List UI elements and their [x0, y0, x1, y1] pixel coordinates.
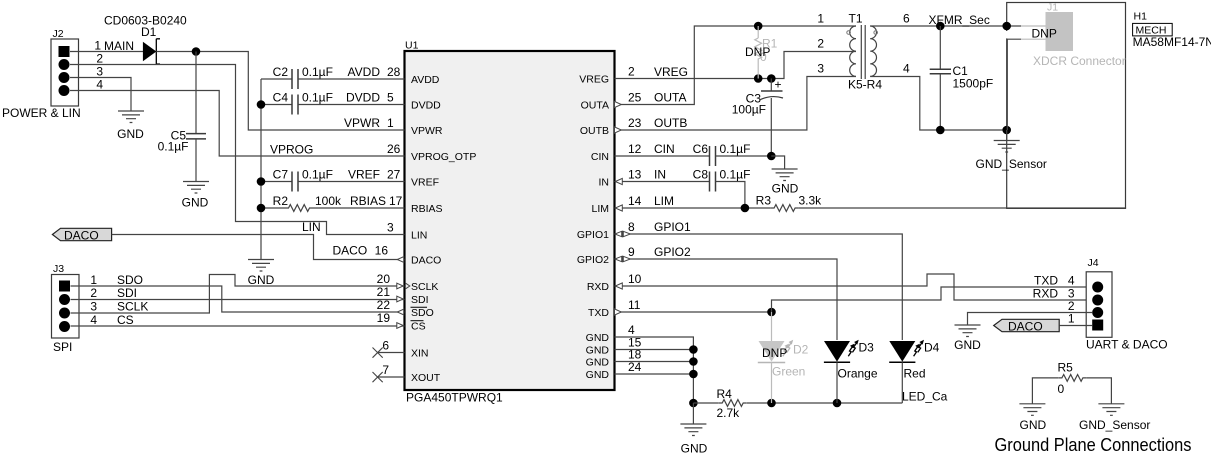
transducer H1 outline box — [1007, 3, 1126, 209]
svg-text:27: 27 — [387, 168, 401, 182]
svg-text:5: 5 — [387, 91, 394, 105]
pin arrow DACO — [397, 257, 403, 263]
svg-text:U1: U1 — [405, 40, 419, 52]
wire IN pin 13 to C8 — [615, 181, 710, 183]
IC U1 body PGA450TPWRQ1 — [405, 40, 615, 405]
svg-text:CIN: CIN — [591, 151, 609, 163]
svg-text:AVDD: AVDD — [411, 74, 440, 86]
junction TXD/D2 — [767, 308, 776, 317]
transformer T1 K5-R4 — [817, 12, 910, 92]
svg-text:28: 28 — [387, 65, 401, 79]
svg-text:RXD: RXD — [1033, 287, 1059, 301]
svg-text:VREG: VREG — [579, 74, 609, 86]
svg-text:2: 2 — [628, 65, 635, 79]
svg-text:VREF: VREF — [348, 168, 380, 182]
transducer H1 labels MECH MA58MF14-7N — [1133, 11, 1211, 50]
pin arrows GPIO2 — [615, 256, 622, 261]
wire T1 pin 4 to sensor ground row — [870, 77, 1007, 131]
svg-text:C4: C4 — [273, 91, 289, 105]
svg-text:SDI: SDI — [117, 286, 137, 300]
svg-text:RBIAS: RBIAS — [350, 194, 386, 208]
svg-text:GPIO1: GPIO1 — [654, 220, 691, 234]
wire T1 pin 6 to XFMR_Sec / J1.1 — [870, 25, 1021, 27]
junction rail/D3 — [833, 399, 842, 408]
svg-text:C6: C6 — [693, 142, 709, 156]
svg-text:12: 12 — [628, 142, 642, 156]
svg-text:J4: J4 — [1088, 257, 1099, 269]
svg-text:DVDD: DVDD — [346, 91, 380, 105]
junction rail/R2 — [257, 204, 266, 213]
wire D1 cathode to VPWR corner — [156, 52, 404, 131]
svg-text:RBIAS: RBIAS — [411, 203, 443, 215]
svg-text:10: 10 — [628, 272, 642, 286]
svg-text:UART & DACO: UART & DACO — [1086, 338, 1168, 352]
primary winding — [850, 26, 856, 76]
wire CIN pin 12 to C6 — [615, 155, 710, 157]
ground rail for C2/C4/C7/R2 — [260, 79, 262, 260]
U1 left pin numbers — [375, 65, 403, 377]
junction rail/C7 — [257, 177, 266, 186]
wire GPIO1 pin 8 to D4 — [615, 234, 903, 340]
svg-text:DNP: DNP — [1032, 27, 1057, 41]
svg-text:D4: D4 — [924, 341, 940, 355]
wire J3.4 CS to U1 CS pin 19 — [71, 325, 405, 327]
pin arrow OUTA — [615, 101, 622, 107]
svg-text:VPROG_OTP: VPROG_OTP — [411, 151, 476, 163]
svg-text:3: 3 — [96, 65, 103, 79]
resistor R2 100k — [261, 194, 405, 211]
svg-text:SDO: SDO — [411, 307, 434, 319]
svg-text:0.1µF: 0.1µF — [720, 142, 751, 156]
svg-text:1: 1 — [94, 39, 101, 53]
svg-text:0.1µF: 0.1µF — [158, 140, 189, 154]
svg-text:8: 8 — [628, 220, 635, 234]
svg-text:25: 25 — [628, 91, 642, 105]
capacitor C4 0.1uF — [261, 91, 405, 115]
junction GND rail / R4 — [689, 399, 698, 408]
pin arrow CS — [397, 323, 403, 329]
wire RXD pin 10 to J4.3 with hop — [615, 274, 1093, 300]
svg-text:4: 4 — [96, 78, 103, 92]
svg-text:TXD: TXD — [588, 307, 609, 319]
svg-text:GND: GND — [117, 127, 144, 141]
svg-text:CIN: CIN — [654, 142, 675, 156]
svg-text:GPIO2: GPIO2 — [577, 254, 609, 266]
ground under J4 pin 2 — [954, 325, 981, 352]
svg-text:GND: GND — [586, 369, 610, 381]
wire J2.1 to D1 anode — [70, 51, 143, 53]
resistor R1 DNP 0 (vertical, not populated) — [745, 26, 778, 79]
capacitor C2 0.1uF — [273, 65, 405, 89]
junction rail/C4 — [257, 100, 266, 109]
pin arrows GPIO1 — [615, 231, 622, 236]
svg-text:SCLK: SCLK — [411, 281, 438, 293]
svg-text:H1: H1 — [1134, 11, 1148, 23]
svg-text:DNP: DNP — [762, 346, 787, 360]
XIN no-connect stub pin 6 — [378, 352, 405, 354]
svg-text:19: 19 — [377, 311, 391, 325]
svg-text:LIN: LIN — [411, 230, 427, 242]
svg-text:1: 1 — [387, 116, 394, 130]
svg-text:VPWR: VPWR — [411, 125, 443, 137]
svg-text:GPIO1: GPIO1 — [577, 229, 609, 241]
pin arrow LIM — [615, 205, 622, 211]
svg-text:11: 11 — [628, 298, 641, 312]
svg-text:GND: GND — [1020, 418, 1047, 432]
svg-text:0.1µF: 0.1µF — [720, 168, 751, 182]
svg-text:GND: GND — [182, 196, 209, 210]
svg-text:1: 1 — [817, 12, 824, 26]
svg-text:GND: GND — [586, 332, 610, 344]
svg-text:13: 13 — [628, 168, 642, 182]
svg-text:VREG: VREG — [654, 65, 688, 79]
svg-text:C8: C8 — [693, 168, 709, 182]
svg-text:GPIO2: GPIO2 — [654, 245, 691, 259]
junction C1 top — [936, 22, 945, 31]
LED D4 Red — [889, 340, 939, 403]
resistor R3 3.3k — [756, 194, 1126, 212]
svg-text:DVDD: DVDD — [411, 100, 441, 112]
svg-text:3: 3 — [387, 221, 394, 235]
pin arrow OUTB — [615, 127, 622, 133]
svg-text:AVDD: AVDD — [348, 65, 381, 79]
svg-text:CS: CS — [117, 313, 134, 327]
capacitor C8 0.1uF — [693, 168, 751, 209]
svg-text:RXD: RXD — [587, 281, 610, 293]
resistor R5 0 ground tie — [1032, 361, 1111, 404]
svg-text:T1: T1 — [849, 12, 863, 26]
svg-text:20: 20 — [377, 272, 391, 286]
phase dots — [847, 31, 851, 35]
svg-text:SDO: SDO — [117, 273, 143, 287]
ground GND (plane tie left) — [1019, 404, 1046, 432]
svg-text:23: 23 — [628, 116, 642, 130]
net flag DACO (left) — [52, 228, 111, 242]
capacitor C7 0.1uF — [261, 168, 405, 192]
XOUT no-connect stub pin 7 — [378, 376, 405, 378]
svg-text:14: 14 — [628, 194, 642, 208]
wire OUTB pin 23 to T1 pin 3 — [615, 77, 857, 131]
core — [861, 25, 865, 79]
svg-text:GND: GND — [954, 338, 981, 352]
junction C8/LIM — [741, 204, 750, 213]
U1 left pin names — [411, 74, 477, 384]
junction XFMR_Sec / H1 top terminal — [1002, 22, 1011, 31]
pin arrow IN — [615, 178, 622, 184]
svg-text:DNP: DNP — [745, 45, 770, 59]
svg-text:4: 4 — [1068, 274, 1075, 288]
svg-text:2: 2 — [817, 37, 824, 51]
svg-text:1500pF: 1500pF — [953, 77, 994, 91]
svg-text:MA58MF14-7N: MA58MF14-7N — [1133, 35, 1211, 49]
svg-text:LIN: LIN — [302, 220, 321, 234]
svg-text:GND_Sensor: GND_Sensor — [976, 157, 1047, 171]
diode D1 CD0603-B0240 — [104, 14, 187, 65]
svg-text:D3: D3 — [859, 341, 875, 355]
svg-text:SPI: SPI — [53, 340, 72, 354]
svg-text:VPWR: VPWR — [344, 116, 380, 130]
LED cathode rail LED_Ca — [772, 402, 903, 404]
wire VREG pin 2 to T1 pin 2 — [615, 52, 857, 79]
svg-text:Ground Plane Connections: Ground Plane Connections — [995, 434, 1192, 454]
junction C1 bottom — [936, 126, 945, 135]
svg-text:C7: C7 — [273, 168, 289, 182]
svg-text:21: 21 — [377, 285, 391, 299]
wire OUTA pin 25 to T1 pin 1 — [615, 26, 857, 105]
svg-text:IN: IN — [599, 177, 610, 189]
svg-text:DACO: DACO — [1008, 320, 1043, 334]
svg-text:VPROG: VPROG — [270, 143, 313, 157]
wire J2.2 to LIN jog — [70, 65, 405, 235]
junction D1/C5 node — [192, 47, 201, 56]
svg-text:J3: J3 — [53, 263, 64, 275]
svg-text:0.1µF: 0.1µF — [302, 65, 333, 79]
svg-text:IN: IN — [654, 168, 666, 182]
bypass rail: wire AVDD row to C2 — [261, 78, 292, 80]
connector J1 XDCR (DNP, not populated) — [1032, 2, 1126, 69]
pin arrow SDI — [397, 296, 403, 302]
connector J3 SPI — [52, 263, 149, 354]
svg-text:0.1µF: 0.1µF — [302, 168, 333, 182]
junction GND18 — [689, 357, 698, 366]
ground under C3/C6 — [771, 156, 798, 196]
svg-text:3.3k: 3.3k — [799, 194, 823, 208]
svg-text:VREF: VREF — [411, 177, 439, 189]
wire LIM pin 14 through R3 to transducer — [615, 207, 771, 209]
U1 GND pins 4/15/18/24 rail — [615, 337, 694, 403]
ground under C5 — [182, 182, 209, 210]
svg-text:XOUT: XOUT — [411, 372, 441, 384]
svg-text:LED_Ca: LED_Ca — [902, 390, 948, 404]
svg-text:GND: GND — [586, 357, 610, 369]
svg-text:OUTA: OUTA — [581, 100, 609, 112]
svg-text:9: 9 — [628, 245, 635, 259]
svg-text:Red: Red — [904, 367, 926, 381]
net flag DACO (right) — [994, 319, 1059, 333]
svg-text:R3: R3 — [756, 194, 772, 208]
wire TXD pin 11 to D2 node — [615, 311, 772, 313]
svg-text:GND: GND — [772, 182, 799, 196]
pin arrow RXD — [615, 283, 622, 289]
svg-text:Green: Green — [772, 365, 805, 379]
ground GND_Sensor (sensor area) — [976, 130, 1047, 171]
svg-text:TXD: TXD — [1034, 274, 1058, 288]
svg-text:3: 3 — [90, 300, 97, 314]
capacitor C3 100uF electrolytic — [732, 78, 783, 157]
svg-text:XIN: XIN — [411, 348, 429, 360]
connector J2 POWER & LIN — [2, 28, 103, 120]
wire J4.2 to ground — [968, 313, 1093, 326]
svg-text:6: 6 — [382, 339, 389, 353]
svg-text:D1: D1 — [141, 25, 157, 39]
wire J3.2 SDI to U1 SDI pin 21 — [71, 299, 405, 301]
svg-text:SCLK: SCLK — [117, 300, 148, 314]
pin arrow SDO — [397, 309, 403, 315]
junction GND24 — [689, 370, 698, 379]
svg-text:+: + — [775, 78, 782, 92]
svg-text:DACO: DACO — [333, 244, 368, 258]
wire GPIO2 pin 9 to D3 — [615, 259, 838, 340]
ground under U1 GND rail — [680, 403, 707, 454]
connector J4 UART & DACO — [1033, 257, 1168, 352]
svg-text:GND: GND — [681, 442, 708, 454]
junction C3 top on VREG wire — [767, 74, 776, 83]
junction C3/C6/ground node — [767, 152, 776, 161]
resistor R4 2.7k — [693, 387, 771, 420]
svg-text:GND: GND — [248, 273, 275, 287]
capacitor C6 0.1uF — [693, 142, 772, 166]
svg-text:0.1µF: 0.1µF — [302, 91, 333, 105]
svg-text:D2: D2 — [793, 343, 809, 357]
junction GND15 — [689, 345, 698, 354]
svg-text:16: 16 — [375, 244, 389, 258]
svg-text:1: 1 — [1068, 312, 1075, 326]
svg-text:OUTB: OUTB — [654, 116, 687, 130]
svg-text:100µF: 100µF — [732, 103, 766, 117]
svg-text:PGA450TPWRQ1: PGA450TPWRQ1 — [406, 391, 503, 405]
wire J3.3 SCLK hop to U1 SCLK pin 20 — [71, 275, 405, 314]
svg-text:LIM: LIM — [591, 203, 609, 215]
svg-text:CS: CS — [411, 321, 426, 333]
svg-text:Orange: Orange — [838, 367, 878, 381]
svg-text:POWER & LIN: POWER & LIN — [2, 106, 81, 120]
svg-text:R4: R4 — [717, 387, 733, 401]
svg-text:17: 17 — [389, 194, 403, 208]
svg-text:OUTA: OUTA — [654, 91, 686, 105]
wire J1.2 to GND_Sensor — [1021, 38, 1046, 40]
junction R1 top on OUTA/T1 wire — [754, 22, 763, 31]
svg-text:26: 26 — [387, 142, 401, 156]
svg-text:J1: J1 — [1047, 2, 1058, 14]
LED D2 Green DNP (not populated) — [758, 312, 809, 403]
svg-text:R5: R5 — [1058, 361, 1074, 375]
svg-text:XDCR Connector: XDCR Connector — [1033, 54, 1126, 68]
svg-text:2: 2 — [96, 52, 103, 66]
wire TXD branch to J4.4 — [772, 287, 1093, 312]
svg-text:1: 1 — [90, 273, 97, 287]
U1 right pin numbers — [628, 65, 642, 375]
svg-text:6: 6 — [903, 12, 910, 26]
ground under bypass rail — [248, 260, 275, 288]
svg-text:C2: C2 — [273, 65, 289, 79]
svg-text:SDI: SDI — [411, 294, 429, 306]
pin arrow TXD — [615, 309, 622, 315]
svg-text:DACO: DACO — [64, 229, 99, 243]
svg-text:LIM: LIM — [654, 194, 674, 208]
svg-text:J2: J2 — [53, 28, 64, 40]
svg-text:3: 3 — [817, 62, 824, 76]
svg-text:GND_Sensor: GND_Sensor — [1079, 418, 1150, 432]
U1 right pin names — [577, 74, 610, 382]
svg-text:R2: R2 — [273, 194, 289, 208]
junction sensor ground / H1 bottom terminal — [1002, 126, 1011, 135]
wire J3.1 SDO to U1 SDO pin 22 — [71, 286, 405, 312]
secondary winding — [870, 26, 876, 76]
svg-text:DACO: DACO — [411, 255, 441, 267]
wire DACO flag to U1 DACO pin 16 — [112, 235, 405, 260]
ground under J2 pin 3 — [117, 111, 144, 141]
svg-text:4: 4 — [90, 313, 97, 327]
ground GND_Sensor (plane tie right) — [1079, 404, 1150, 432]
svg-text:GND: GND — [586, 345, 610, 357]
capacitor C5 0.1uF — [158, 52, 206, 182]
svg-text:K5-R4: K5-R4 — [848, 78, 882, 92]
wire J2.4 to VPROG_OTP — [70, 91, 405, 157]
svg-text:4: 4 — [903, 62, 910, 76]
wire J2.3 to ground — [70, 78, 131, 112]
svg-text:100k: 100k — [315, 194, 342, 208]
pin arrows SCLK — [397, 283, 403, 289]
capacitor C1 1500pF — [930, 26, 994, 130]
junction rail/D2 — [767, 399, 776, 408]
svg-text:OUTB: OUTB — [580, 125, 609, 137]
svg-text:7: 7 — [382, 363, 389, 377]
svg-text:2.7k: 2.7k — [717, 406, 741, 420]
junction R1 bottom on VREG wire — [754, 74, 763, 83]
svg-text:2: 2 — [90, 286, 97, 300]
svg-text:0: 0 — [1058, 382, 1065, 396]
LED D3 Orange — [824, 340, 878, 403]
wire DACO flag to J4.1 — [1059, 325, 1092, 327]
